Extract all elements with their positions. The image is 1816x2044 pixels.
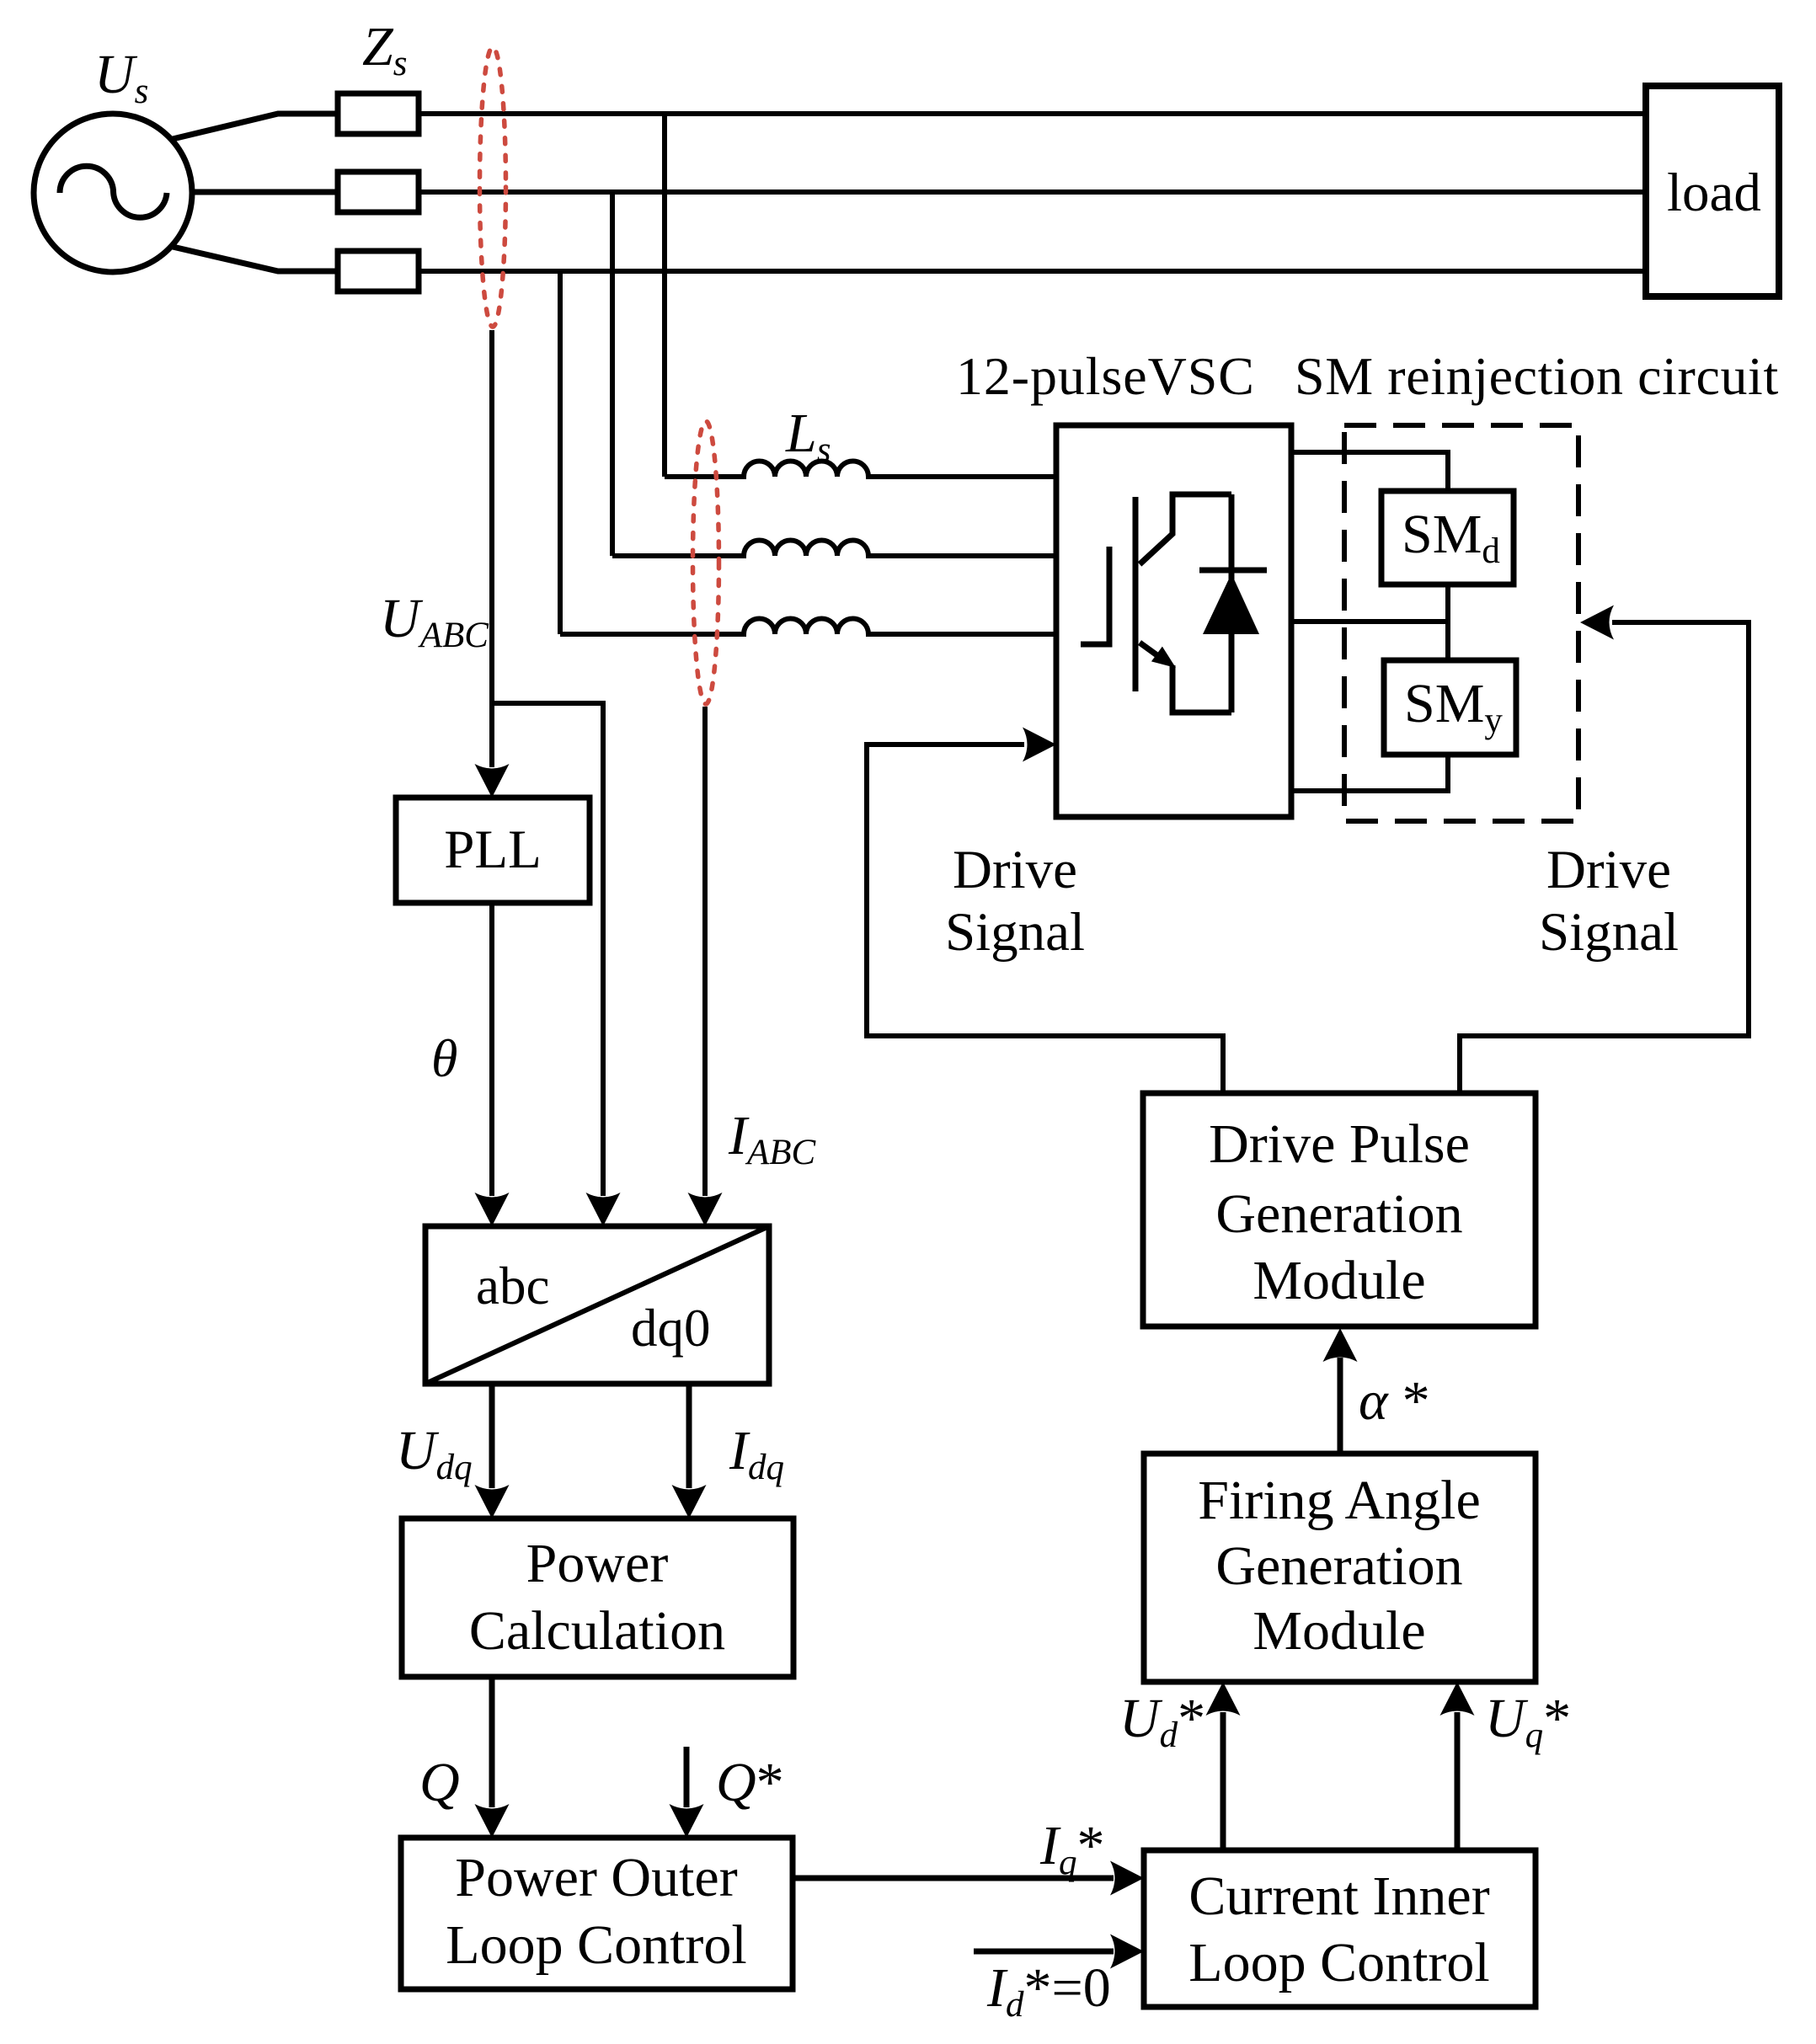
wire alpha* arrow [1338,1358,1343,1454]
wire VSC to SM middle [1291,619,1448,624]
block PLL [396,798,590,903]
svg-text:Signal: Signal [1539,902,1679,963]
wire Iq* line [793,1876,1114,1881]
svg-text:Id*=0: Id*=0 [986,1957,1111,2025]
svg-text:θ: θ [431,1028,457,1088]
IGBT emitter arrowhead [1151,647,1176,668]
svg-text:Drive: Drive [1546,840,1671,900]
svg-text:dq0: dq0 [631,1299,711,1358]
wire Id* line [974,1949,1114,1955]
IGBT collector [1140,494,1231,564]
abc/dq0 diagonal [425,1226,769,1384]
wire Idq arrow [686,1384,692,1488]
block Firing Angle Generation Module [1144,1454,1536,1682]
svg-text:Drive: Drive [953,840,1077,900]
arrow theta into abc/dq0 [475,1193,510,1226]
wire theta PLL to abc/dq0 [489,903,494,1196]
wire UABC down [489,330,494,767]
diode branch wire [1229,494,1235,712]
svg-text:Generation: Generation [1215,1183,1462,1245]
svg-text:Power Outer: Power Outer [455,1847,737,1908]
arrow into SM box [1580,606,1614,640]
submodule SMd box [1381,491,1514,584]
svg-text:Current Inner: Current Inner [1188,1865,1489,1927]
wire IABC down [702,707,708,1196]
svg-text:SM reinjection circuit: SM reinjection circuit [1295,346,1779,406]
block Current Inner Loop Control [1144,1850,1536,2007]
voltage measurement ellipse (red dashed) [480,47,506,327]
load box [1646,86,1779,296]
wire VSC to SM bottom [1291,755,1448,791]
svg-text:Generation: Generation [1215,1535,1462,1597]
wire UABC branch to abc/dq0 [492,703,603,1196]
inductor Ls phase A [665,462,1056,478]
svg-text:Module: Module [1253,1600,1425,1662]
current measurement ellipse (red dashed) [693,421,719,704]
impedance Zs phase B [338,172,419,212]
svg-text:Drive Pulse: Drive Pulse [1209,1113,1470,1175]
impedance Zs phase A [338,93,419,134]
svg-text:Module: Module [1253,1250,1425,1311]
inductor Ls phase B [612,541,1056,556]
wire Udq arrow [489,1384,495,1488]
IGBT body bar [1133,497,1139,691]
SM reinjection dashed box [1344,425,1578,821]
wire Q* arrow [684,1747,690,1807]
diode triangle [1203,574,1259,634]
svg-text:12-pulseVSC: 12-pulseVSC [956,346,1255,406]
arrow IABC into abc/dq0 [688,1193,723,1226]
wire VSC to SM top [1291,452,1448,491]
block Drive Pulse Generation Module [1143,1093,1536,1326]
wire tap phase C down [558,271,563,634]
AC source U_s circle [34,114,192,272]
submodule SMy box [1384,660,1516,755]
IGBT emitter [1140,643,1164,660]
svg-text:Signal: Signal [945,902,1085,963]
wire phase B bus [419,189,1646,195]
impedance Zs phase C [338,251,419,291]
diode cathode bar [1199,568,1267,574]
svg-text:abc: abc [476,1257,549,1316]
block Power Outer Loop Control [401,1838,793,1989]
svg-text:PLL: PLL [444,819,542,880]
AC source sine wave [60,166,167,217]
inductor Ls phase C [560,619,1056,634]
IGBT emitter wire [1172,665,1231,712]
wire phase A source lead [173,114,338,139]
arrow into VSC box [1023,728,1056,762]
svg-text:Q*: Q* [716,1752,784,1813]
wire drive signal right feed [1460,622,1749,1093]
block Power Calculation [402,1518,793,1677]
wire Uq* arrow [1455,1712,1461,1850]
svg-text:load: load [1667,163,1761,223]
svg-text:Firing Angle: Firing Angle [1198,1470,1481,1531]
wire phase C source lead [173,247,338,271]
svg-text:Loop Control: Loop Control [1188,1932,1490,1993]
wire phase A bus [419,111,1646,116]
arrow into PLL [475,764,510,798]
block abc/dq0 transform [425,1226,769,1384]
wire SMd to SMy [1445,584,1450,660]
arrow branch into abc/dq0 [586,1193,621,1226]
wire drive signal left feed [867,744,1223,1093]
svg-text:Loop Control: Loop Control [446,1914,747,1976]
wire tap phase A down [662,114,667,477]
svg-text:Calculation: Calculation [469,1600,725,1662]
converter U1 12-pulse VSC box [1056,425,1291,817]
wire phase C bus [419,269,1646,274]
svg-text:Q: Q [419,1752,460,1813]
wire Q arrow [489,1677,495,1807]
IGBT gate lead [1081,547,1109,644]
wire Ud* arrow [1220,1712,1226,1850]
wire tap phase B down [610,192,615,556]
wire phase B source lead [192,189,338,195]
svg-text:Power: Power [526,1533,669,1594]
